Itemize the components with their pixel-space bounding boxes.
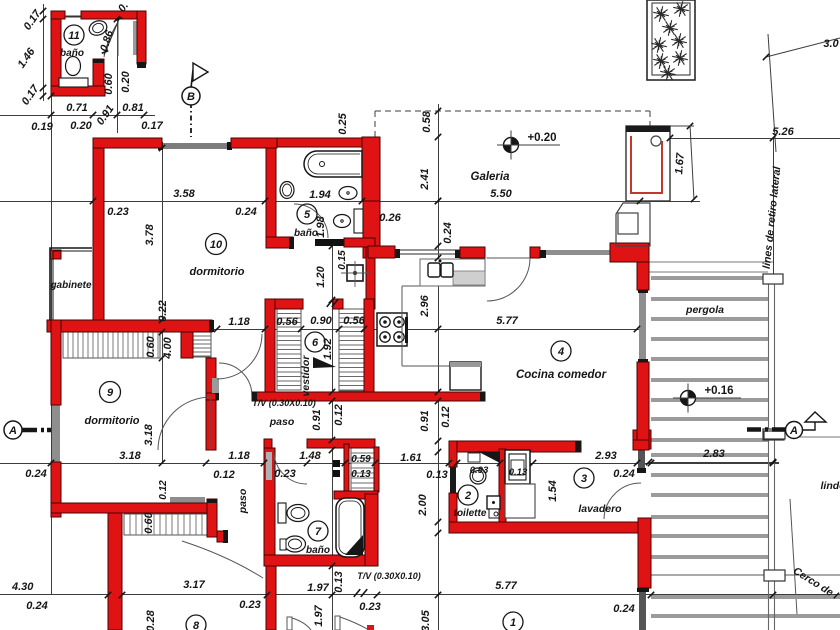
svg-text:0.28: 0.28 bbox=[145, 609, 157, 630]
svg-text:2.96: 2.96 bbox=[419, 294, 431, 317]
wall house north-west segment bbox=[93, 138, 162, 148]
closet hatch small right of stub bbox=[193, 332, 211, 357]
window bath11 north bbox=[65, 16, 81, 18]
svg-text:0.15: 0.15 bbox=[337, 250, 348, 270]
svg-text:A: A bbox=[8, 425, 17, 437]
side table below parrilla bbox=[616, 203, 650, 246]
dimension line y=138 (5.26 line top right) bbox=[668, 138, 840, 140]
door arc kitchen entry bbox=[487, 258, 530, 301]
svg-text:gabinete: gabinete bbox=[49, 280, 92, 291]
svg-text:4: 4 bbox=[557, 346, 564, 358]
dimension line y=201 (galeria 5.50 line) bbox=[0, 201, 700, 203]
svg-text:0.17: 0.17 bbox=[141, 120, 163, 132]
level symbol +0.20 galeria bbox=[504, 138, 519, 153]
dimension line y=329 (0.56/0.90 5.77 line) bbox=[214, 329, 640, 331]
dimension line y=463 (main 3.18/1.18 line) bbox=[0, 463, 779, 465]
wall kitchen east upper bbox=[637, 262, 649, 290]
svg-text:baño: baño bbox=[306, 545, 330, 556]
wall house north-east corner bbox=[362, 137, 380, 201]
window dormitorio 9 west bbox=[52, 405, 60, 462]
svg-text:3.17: 3.17 bbox=[183, 579, 205, 591]
svg-text:0.12: 0.12 bbox=[440, 406, 452, 427]
line y=437 right edge stub bbox=[793, 436, 840, 438]
door arc dormitorio9 bbox=[158, 397, 211, 450]
room number 8 bbox=[186, 615, 206, 630]
wall bath7 west bbox=[264, 448, 275, 566]
svg-text:0.23: 0.23 bbox=[107, 206, 128, 218]
wall paso step east bbox=[217, 531, 225, 542]
svg-text:0.24: 0.24 bbox=[613, 603, 634, 615]
svg-text:dormitorio: dormitorio bbox=[85, 415, 140, 427]
gabinete outline bbox=[50, 248, 92, 320]
door arc bath5 bbox=[294, 204, 328, 238]
svg-text:1.92: 1.92 bbox=[322, 338, 334, 359]
svg-text:0.13: 0.13 bbox=[509, 467, 528, 478]
bath 7 closet hatch bbox=[351, 448, 374, 491]
dimension ticks bbox=[48, 112, 54, 118]
room number 1 bbox=[503, 612, 523, 630]
svg-text:2.00: 2.00 bbox=[417, 493, 429, 516]
svg-text:6: 6 bbox=[312, 337, 319, 349]
boiler square corridor bbox=[347, 265, 363, 281]
wall bath5 north bbox=[277, 138, 362, 147]
svg-text:0.71: 0.71 bbox=[66, 102, 87, 114]
wall dormitorio9 south bbox=[51, 503, 207, 513]
window toilette west (black bar) bbox=[450, 464, 456, 498]
svg-text:0.58: 0.58 bbox=[421, 110, 433, 132]
svg-text:2.41: 2.41 bbox=[419, 168, 431, 190]
door arc lavadero east bbox=[604, 483, 641, 519]
svg-text:0.91: 0.91 bbox=[419, 410, 431, 431]
svg-text:0.90: 0.90 bbox=[310, 315, 332, 327]
svg-text:1.97: 1.97 bbox=[307, 582, 329, 594]
svg-text:0.20: 0.20 bbox=[120, 70, 132, 92]
wall bath7 north bbox=[307, 439, 375, 448]
svg-text:1: 1 bbox=[510, 617, 516, 629]
svg-text:4.30: 4.30 bbox=[11, 581, 34, 593]
svg-text:0.23: 0.23 bbox=[359, 601, 380, 613]
pergola post connector mid bbox=[763, 429, 784, 440]
svg-text:1.18: 1.18 bbox=[228, 316, 250, 328]
wall bath5 south east piece bbox=[344, 238, 375, 247]
room number 10 bbox=[206, 234, 227, 255]
vertical line x=438 kitchen axis bbox=[438, 104, 440, 630]
svg-text:2.83: 2.83 bbox=[702, 448, 724, 460]
slanted dimension line 3.0 top right bbox=[766, 38, 840, 57]
svg-text:0.13: 0.13 bbox=[333, 571, 345, 592]
wall lavadero east corner south bbox=[638, 518, 651, 588]
svg-text:3.05: 3.05 bbox=[420, 609, 432, 630]
svg-text:5.77: 5.77 bbox=[495, 580, 517, 592]
wall dormitorio10 west bbox=[93, 148, 104, 332]
svg-text:0.59: 0.59 bbox=[351, 454, 371, 465]
wall bath7 south bbox=[264, 555, 378, 566]
wall bath11 north right bbox=[81, 11, 146, 19]
dim line 0.86 bath11 bbox=[104, 17, 120, 55]
svg-text:0.13: 0.13 bbox=[351, 469, 371, 480]
svg-text:paso: paso bbox=[237, 488, 249, 514]
door leaf paso bbox=[212, 378, 219, 393]
parrilla (BBQ) bbox=[626, 126, 670, 201]
svg-text:1.94: 1.94 bbox=[309, 189, 330, 201]
door arc dormitorio10 bbox=[217, 334, 262, 379]
wall kitchen south bar bbox=[252, 392, 485, 401]
room number 3 bbox=[574, 468, 594, 488]
svg-text:0.23: 0.23 bbox=[239, 599, 260, 611]
window kitchen north bbox=[546, 250, 610, 255]
wall toilette north bbox=[449, 441, 581, 452]
level symbol +0.16 pergola bbox=[681, 391, 696, 406]
double slash mark vestidor top bbox=[327, 299, 333, 307]
wall toilette west upper bbox=[449, 441, 457, 467]
vestidor closet left hatch bbox=[277, 309, 301, 390]
svg-text:0.56: 0.56 bbox=[276, 316, 298, 328]
door arc room8 bottom bbox=[287, 617, 292, 630]
svg-text:11: 11 bbox=[68, 30, 79, 42]
svg-text:1.48: 1.48 bbox=[299, 450, 321, 462]
wall shaft bottom right bbox=[639, 592, 646, 630]
wall lavadero south bbox=[449, 522, 651, 533]
svg-text:4.00: 4.00 bbox=[162, 336, 174, 359]
room number 7 bbox=[308, 521, 328, 541]
stove kitchen bbox=[377, 313, 407, 346]
washing machine bbox=[505, 450, 530, 484]
bathtub bath5 bbox=[304, 151, 362, 177]
double slash bottom 0.23 bbox=[354, 589, 360, 597]
svg-text:0.25: 0.25 bbox=[337, 112, 349, 134]
entry door sill lines bbox=[395, 249, 460, 251]
wall below bath7 to bottom bbox=[266, 566, 276, 630]
bidet bath5 bbox=[334, 215, 351, 228]
door leaf bath7 bbox=[266, 452, 272, 480]
wall toilette west lower bbox=[449, 493, 457, 522]
wall kitchen north w3 bbox=[530, 247, 540, 258]
door arc bath11 bbox=[104, 22, 118, 57]
kitchen counter and sink bbox=[420, 259, 485, 286]
svg-text:8: 8 bbox=[193, 620, 200, 630]
svg-text:0.12: 0.12 bbox=[213, 469, 234, 481]
kitchen door gap sill line bbox=[485, 257, 530, 259]
room number 5 bbox=[297, 204, 317, 224]
pergola top edge lines bbox=[649, 261, 773, 263]
wall house east upper bbox=[363, 201, 380, 258]
kitchen island bbox=[450, 362, 481, 390]
pergola post connector bottom bbox=[764, 570, 785, 581]
section marker B top bbox=[191, 70, 193, 88]
svg-text:0.24: 0.24 bbox=[26, 600, 47, 612]
svg-text:0.12: 0.12 bbox=[158, 480, 169, 500]
svg-text:0.60: 0.60 bbox=[103, 72, 115, 94]
stairs hatch below dorm 9 bbox=[124, 514, 207, 535]
svg-text:3: 3 bbox=[581, 473, 587, 485]
section marker A right bbox=[764, 431, 785, 439]
wall vestidor east bbox=[364, 299, 374, 397]
pergola post connector top bbox=[763, 274, 783, 284]
svg-text:dormitorio: dormitorio bbox=[190, 266, 245, 278]
svg-text:lindero: lindero bbox=[820, 480, 840, 492]
door arc bath7 bbox=[274, 452, 307, 484]
line y=575 lindero cross line bbox=[651, 574, 840, 576]
wall kitchen north w2 bbox=[460, 247, 485, 258]
svg-text:1.54: 1.54 bbox=[547, 480, 559, 501]
wall paso west corner lower bbox=[207, 499, 217, 537]
wall red stub bottom room1 bbox=[367, 625, 374, 630]
window dormitorio 10 north bbox=[162, 143, 231, 149]
vertical dim line x=43 (1.46) bbox=[43, 4, 45, 101]
sink bath5 bbox=[280, 182, 294, 199]
wall closet stub bbox=[181, 332, 193, 358]
svg-text:+0.16: +0.16 bbox=[704, 385, 733, 397]
closet hatch dormitorio 9 top bbox=[63, 332, 160, 358]
planter top right bbox=[647, 0, 695, 80]
svg-text:lavadero: lavadero bbox=[578, 503, 622, 515]
sink toilette bbox=[470, 468, 486, 484]
svg-text:0.60: 0.60 bbox=[143, 511, 155, 533]
svg-text:0.91: 0.91 bbox=[311, 409, 323, 430]
svg-text:0.24: 0.24 bbox=[235, 206, 256, 218]
black marks bath7 east bbox=[333, 460, 340, 467]
svg-text:3.18: 3.18 bbox=[119, 450, 141, 462]
svg-text:1.98: 1.98 bbox=[315, 215, 327, 237]
svg-text:1.18: 1.18 bbox=[228, 450, 250, 462]
svg-text:9: 9 bbox=[107, 387, 114, 399]
svg-text:T/V (0.30X0.10): T/V (0.30X0.10) bbox=[252, 398, 316, 408]
door sill bath5 south (black) bbox=[315, 239, 344, 246]
svg-text:Galeria: Galeria bbox=[471, 171, 511, 183]
wall lavadero north-east block bbox=[633, 430, 651, 449]
svg-text:2: 2 bbox=[464, 490, 471, 502]
svg-text:0.93: 0.93 bbox=[470, 465, 489, 476]
svg-text:A: A bbox=[789, 425, 798, 437]
wall paso west bbox=[206, 358, 216, 450]
svg-text:5.50: 5.50 bbox=[490, 188, 512, 200]
svg-text:3.0: 3.0 bbox=[823, 38, 839, 50]
wall vestidor north small piece bbox=[333, 299, 343, 309]
svg-text:toilette: toilette bbox=[454, 508, 487, 519]
wall dormitorio9 west lower bbox=[51, 462, 61, 517]
wall kitchen north w1 bbox=[368, 246, 395, 258]
wall bath11 west bbox=[51, 11, 61, 96]
dimension line y=115 (top-left bath) bbox=[0, 115, 155, 117]
wall bath7 east lower bbox=[365, 494, 378, 566]
corner shelf toilette (black triangle) bbox=[477, 451, 500, 463]
wall vestidor north-west corner bbox=[265, 299, 303, 309]
vestidor closet right hatch bbox=[339, 309, 364, 391]
slanted dim 1.67 at parrilla bbox=[690, 125, 694, 200]
dashed section line B x=191 bbox=[190, 103, 192, 137]
svg-text:7: 7 bbox=[315, 526, 322, 538]
vertical line x=773 lindero upper bbox=[773, 138, 775, 275]
svg-text:10: 10 bbox=[210, 239, 223, 251]
room number 2 toilette bbox=[458, 485, 478, 505]
svg-text:Cocina comedor: Cocina comedor bbox=[516, 369, 607, 381]
svg-text:1.61: 1.61 bbox=[400, 452, 421, 464]
washroom counter bbox=[505, 484, 535, 518]
wall kitchen north-east corner bbox=[610, 243, 649, 262]
room number 11 bath bbox=[64, 25, 84, 45]
bidet bath7 bbox=[285, 536, 306, 552]
wall exterior going south x108 bbox=[108, 513, 122, 630]
svg-text:5: 5 bbox=[304, 209, 311, 221]
wall bath7 closet south bbox=[334, 491, 378, 499]
vertical line x=332 center axis bbox=[332, 246, 334, 630]
wall bath7 closet partition west bbox=[344, 444, 349, 492]
svg-text:0.24: 0.24 bbox=[25, 468, 46, 480]
wall bath7 north-west bit bbox=[264, 439, 272, 450]
svg-text:paso: paso bbox=[269, 416, 295, 428]
wall bath11 inner partition bbox=[93, 59, 104, 96]
svg-text:0.60: 0.60 bbox=[145, 335, 157, 357]
toilet bath5 bbox=[339, 187, 357, 200]
toilet bath11 bbox=[66, 57, 81, 76]
pergola posts vertical bbox=[768, 275, 770, 630]
room number 6 vestidor bbox=[305, 332, 325, 352]
svg-text:1.20: 1.20 bbox=[315, 265, 327, 287]
wall corridor east x366 bbox=[366, 247, 375, 309]
svg-text:0.26: 0.26 bbox=[379, 212, 401, 224]
svg-text:5.77: 5.77 bbox=[496, 315, 518, 327]
vertical line x=162 (3.78/4.00 axis) bbox=[162, 146, 164, 463]
door arc paso bbox=[219, 363, 252, 396]
svg-text:0.12: 0.12 bbox=[333, 404, 345, 425]
kitchen counter edge lines bbox=[402, 285, 485, 287]
svg-text:5.26: 5.26 bbox=[772, 126, 794, 138]
fixture square toilette bbox=[487, 496, 500, 509]
wall dormitorio9 north band bbox=[47, 320, 212, 332]
svg-text:3.58: 3.58 bbox=[173, 188, 195, 200]
svg-text:0.24: 0.24 bbox=[442, 222, 454, 243]
wall pillar at galeria bbox=[633, 440, 649, 450]
svg-text:vestidor: vestidor bbox=[300, 355, 312, 397]
wall vestidor west bbox=[265, 299, 275, 397]
wall bath11 north left bbox=[51, 11, 65, 19]
wall paso door stub bbox=[206, 393, 218, 400]
svg-text:1.97: 1.97 bbox=[313, 604, 325, 626]
pillar shaft pergola wall bbox=[638, 450, 645, 468]
room number 4 bbox=[551, 341, 571, 361]
door leaf bath 11 bbox=[133, 21, 138, 55]
wall bath5 south-west L foot bbox=[266, 237, 293, 248]
wall toilette/washroom partition bbox=[499, 449, 506, 525]
svg-text:3.78: 3.78 bbox=[144, 223, 156, 245]
svg-text:+0.20: +0.20 bbox=[527, 132, 556, 144]
wall bath11 south bbox=[51, 86, 105, 96]
svg-text:3.18: 3.18 bbox=[143, 423, 155, 445]
bathtub bath7 bbox=[336, 498, 364, 557]
door arc room1 bottom bbox=[335, 616, 340, 630]
svg-text:0.81: 0.81 bbox=[122, 102, 143, 114]
svg-text:2.93: 2.93 bbox=[594, 450, 616, 462]
door arc paso to room8 bbox=[182, 541, 263, 578]
dashed galeria boundary bbox=[375, 110, 650, 112]
toilet bath7 bbox=[287, 505, 309, 522]
section marker A left bbox=[22, 428, 51, 433]
svg-text:0.22: 0.22 bbox=[157, 300, 169, 321]
svg-text:0.23: 0.23 bbox=[274, 468, 295, 480]
svg-text:1.67: 1.67 bbox=[673, 152, 687, 175]
room number 9 bbox=[100, 382, 121, 403]
svg-text:0.20: 0.20 bbox=[70, 120, 92, 132]
wall house north mid segment bbox=[231, 138, 277, 148]
wall bath11 east bbox=[137, 11, 146, 64]
wall gabinete stub bbox=[50, 250, 61, 259]
svg-text:0.56: 0.56 bbox=[343, 315, 365, 327]
dimension line y=595 (bottom 4.30/3.17/5.77 line) bbox=[0, 594, 840, 596]
wall dormitorio10/bath5 partition bbox=[266, 148, 276, 248]
pergola beams bbox=[651, 276, 768, 280]
svg-text:0.24: 0.24 bbox=[613, 468, 634, 480]
svg-text:T/V (0.30X0.10): T/V (0.30X0.10) bbox=[357, 571, 421, 581]
wall dormitorio9 west upper bbox=[51, 320, 61, 405]
vertical line x=51 left wall axis bbox=[51, 96, 53, 595]
svg-text:B: B bbox=[187, 91, 195, 103]
svg-text:0.19: 0.19 bbox=[31, 121, 53, 133]
window dormitorio 9 south bbox=[170, 497, 205, 503]
sink bath11 bbox=[87, 18, 109, 37]
vertical line x=117 bbox=[117, 19, 119, 133]
leader line Cerco de bbox=[790, 499, 797, 614]
wall kitchen east lower bbox=[637, 362, 649, 450]
arrow vestidor bbox=[313, 357, 336, 368]
wall bath7 closet east thin bbox=[374, 447, 379, 492]
svg-text:pergola: pergola bbox=[685, 304, 724, 316]
dimension line y=462 (2.83 pergola) bbox=[649, 462, 779, 464]
svg-text:0.13: 0.13 bbox=[426, 469, 447, 481]
svg-text:baño: baño bbox=[60, 48, 84, 59]
window kitchen east bbox=[639, 292, 646, 359]
